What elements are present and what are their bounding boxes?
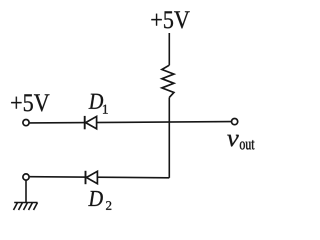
wire: middle horizontal net to output bbox=[30, 122, 232, 123]
diode D2 cathode bar bbox=[85, 171, 87, 184]
label D2 subscript 2 bbox=[106, 201, 111, 210]
label D1 subscript 1 bbox=[103, 105, 108, 114]
wire from top +5V down to resistor bbox=[168, 33, 170, 65]
wire: circle down to ground symbol bbox=[25, 180, 27, 202]
label D1 bbox=[89, 94, 104, 109]
label D2 bbox=[88, 191, 103, 206]
wire from resistor down through node to lower wire corner bbox=[168, 97, 170, 177]
diode D1 cathode bar bbox=[84, 116, 86, 129]
diode D1 triangle bbox=[86, 116, 97, 128]
diode D2 triangle bbox=[86, 171, 97, 183]
label v_out subscript out bbox=[240, 140, 255, 149]
label +5V (left input) bbox=[11, 94, 49, 111]
ground terminal circle (lower left) bbox=[23, 174, 29, 180]
output terminal circle bbox=[232, 119, 238, 125]
ground bbox=[14, 203, 38, 211]
resistor (pull-up) bbox=[162, 65, 174, 97]
label +5V (top supply) bbox=[151, 11, 189, 28]
wire: lower horizontal net bbox=[30, 177, 170, 178]
input terminal circle (left +5V) bbox=[23, 120, 29, 126]
label v_out v bbox=[227, 135, 239, 147]
